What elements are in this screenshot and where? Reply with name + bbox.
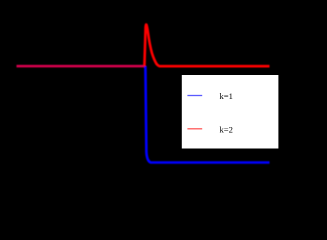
legend sample line k=2 (red) bbox=[187, 128, 202, 130]
svg-text:k=2: k=2 bbox=[220, 124, 233, 134]
overlapped flat segment (blue under red -> crimson blend) left of shock bbox=[17, 65, 145, 68]
svg-text:k=1: k=1 bbox=[220, 91, 233, 101]
curve k=1 (blue), drop step at x~145 then flat bottom bbox=[145, 66, 269, 163]
legend box bbox=[182, 75, 279, 149]
legend sample line k=1 (blue) bbox=[187, 95, 202, 97]
curve k=2 (red), spike at x~146 then decay and flat line bbox=[144, 25, 269, 67]
